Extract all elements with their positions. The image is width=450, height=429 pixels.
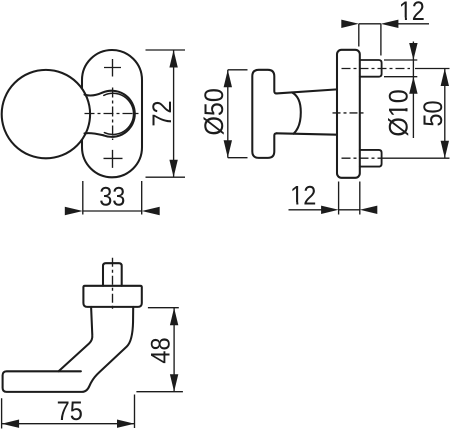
front view: horizontal centerline [85,113,141,115]
front view: neck inner arc [104,93,134,134]
svg-text:50: 50 [418,100,448,126]
dim 50: top arrow [441,69,449,87]
dim 33: dimension line [83,210,142,212]
front view: bottom screw hole cross [104,150,123,168]
dim Ø50: extension ticks [228,70,248,158]
side view: neck top line [277,89,337,93]
dim 50: dimension line [444,69,446,159]
dim Ø10: dimension line [412,42,414,139]
svg-text:Ø50: Ø50 [199,88,229,135]
dim top 12: left arrow [341,20,359,28]
bottom view: grip outline [3,307,134,392]
front view: knob ball circle [2,70,90,158]
side view: bottom screw centerline [342,157,382,159]
svg-text:72: 72 [147,100,177,126]
dim 72: top arrow [169,50,177,68]
side view: neck bottom line [277,133,337,134]
label top 12 [399,0,425,26]
side view: knob face [252,70,276,158]
svg-text:33: 33 [99,181,125,211]
svg-text:12: 12 [290,181,316,211]
dim Ø50: dimension line [227,70,229,158]
dim Ø10: extension lines [384,60,417,77]
front view: top screw hole cross [104,59,121,77]
dim 75: right arrow [117,420,135,428]
side view: rosette plate [337,50,360,178]
dim 50: extension lines [381,69,450,159]
dim top 12: extension lines [359,24,381,56]
side view: top screw centerline [342,68,411,70]
front view: neck top S-curve [85,93,103,96]
dim top 12: right arrow [381,20,399,28]
dim bottom 12: extension lines [339,182,360,215]
side view: top screw [360,60,382,77]
dim 72: bottom arrow [169,160,177,178]
dim 75: left arrow [2,420,20,428]
dim bottom 12: right arrow [360,206,378,214]
svg-text:75: 75 [57,396,83,426]
dim 75: extension lines [2,395,135,429]
dim Ø10: top arrow [409,43,417,60]
side view: middle centerline [333,112,365,114]
front view: vertical centerline [112,88,114,141]
dim top 12: dimension line with tail [359,23,429,25]
dim Ø10: bottom arrow [409,77,417,94]
dim 33: right arrow [142,207,160,215]
front view: neck bottom S-curve [85,133,104,135]
dim 48: bottom arrow [170,374,178,392]
dim 50: bottom arrow [441,141,449,159]
side view: neck flare arc [292,92,301,133]
side view: bottom screw [360,150,382,167]
label bottom 12 [290,181,316,211]
label Ø10 [384,89,414,136]
svg-text:48: 48 [146,337,176,363]
dim 72: extension lines [146,50,186,177]
dim 48: extension lines [136,308,183,392]
dim bottom 12: left arrow [321,206,339,214]
svg-text:12: 12 [399,0,425,26]
dim 48: dimension line [173,308,175,392]
dim Ø50: top arrow [224,70,232,88]
dim 72: dimension line [173,50,175,177]
dim 75: dimension line [2,423,135,425]
bottom view: spindle pin [103,263,122,286]
bottom view: spindle centerline [112,258,114,312]
dim Ø50: bottom arrow [224,140,232,158]
svg-text:Ø10: Ø10 [384,89,414,136]
dim 48: top arrow [170,308,178,326]
dim 33: extension lines [83,181,142,215]
bottom view: neck left edge and diagonal [59,307,93,371]
front view: rosette plate (stadium outline) [82,50,142,177]
dim 33: left arrow [65,207,83,215]
bottom view: base block [83,286,141,307]
front view: neck outer arc [103,91,135,137]
dim bottom 12: dimension line with tail [289,209,360,211]
